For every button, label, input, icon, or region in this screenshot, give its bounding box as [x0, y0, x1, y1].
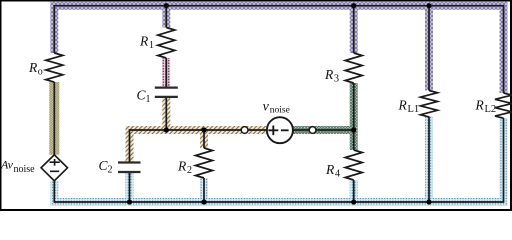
svg-text:v: v — [263, 99, 270, 114]
resistor R4 — [345, 150, 362, 180]
node mid R3R4 — [351, 127, 356, 132]
node top RL1 — [426, 3, 431, 8]
resistor R1 — [158, 28, 175, 58]
terminal left of vnoise — [241, 127, 248, 134]
label RL2 — [475, 98, 497, 116]
svg-text:o: o — [38, 66, 43, 77]
svg-text:noise: noise — [14, 164, 36, 175]
resistor R2 — [196, 148, 213, 178]
resistor R3 — [345, 53, 362, 83]
dependent source Avnoise (diamond) — [41, 155, 67, 181]
svg-text:R: R — [177, 159, 187, 174]
label R3 — [324, 67, 339, 85]
svg-text:noise: noise — [270, 106, 290, 116]
svg-text:1: 1 — [149, 40, 154, 51]
label R1 — [139, 34, 154, 52]
node bottom R2 — [201, 199, 206, 204]
source vnoise — [267, 117, 293, 143]
svg-text:2: 2 — [108, 165, 113, 176]
wire left branch khaki (Ro to source) — [49, 82, 59, 155]
node mid C1 — [164, 127, 169, 132]
node top R1 — [164, 3, 169, 8]
svg-text:3: 3 — [334, 74, 339, 85]
label C2 — [99, 158, 113, 176]
label C1 — [137, 88, 151, 106]
wire green (vnoise to R3/R4) — [292, 83, 353, 150]
node top R3 — [351, 3, 356, 8]
label Ro — [28, 60, 43, 78]
svg-text:4: 4 — [335, 169, 340, 180]
svg-text:R: R — [325, 162, 335, 177]
svg-text:Av: Av — [0, 158, 14, 172]
label Avnoise — [0, 158, 35, 175]
svg-text:L2: L2 — [485, 104, 497, 115]
wire pink (R1 to C1) — [162, 58, 170, 87]
svg-text:L1: L1 — [408, 104, 420, 115]
node bottom RL1 — [426, 199, 431, 204]
node mid R2 — [201, 127, 206, 132]
svg-text:R: R — [139, 34, 149, 49]
svg-text:R: R — [324, 67, 334, 82]
resistor RL2 — [495, 93, 512, 118]
svg-text:R: R — [475, 98, 485, 113]
terminal right of vnoise — [309, 127, 316, 134]
wire blue (bottom rail and lower branches) — [54, 117, 503, 203]
label R4 — [325, 162, 340, 180]
svg-text:R: R — [398, 98, 408, 113]
label vnoise — [263, 99, 290, 115]
label R2 — [177, 159, 192, 177]
svg-text:1: 1 — [146, 94, 151, 105]
capacitor C2 — [118, 163, 141, 173]
svg-text:2: 2 — [187, 165, 192, 176]
capacitor C1 — [155, 88, 178, 97]
svg-text:R: R — [28, 60, 38, 75]
label RL1 — [398, 98, 420, 116]
wire top rail (purple hatched) — [54, 6, 503, 93]
node bottom R4 — [351, 199, 356, 204]
node bottom C2 — [127, 199, 132, 204]
resistor Ro — [46, 53, 63, 82]
resistor RL1 — [421, 91, 438, 117]
wire tan (C1 bottom, mid rail, C2 top, R2 top) — [130, 98, 268, 162]
